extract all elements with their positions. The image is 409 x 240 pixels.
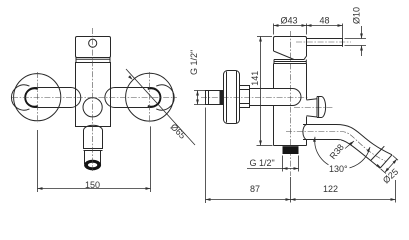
dim 87/122 ext right <box>395 180 397 203</box>
svg-text:Ø10: Ø10 <box>351 7 361 24</box>
svg-text:Ø43: Ø43 <box>281 15 298 25</box>
arrow 48 left <box>307 24 312 27</box>
arrow G1/2 top <box>196 91 199 96</box>
spout tip <box>85 151 101 164</box>
text R38 <box>327 140 348 162</box>
dim Ø43 ext right / 48 left <box>306 24 308 35</box>
centerline vertical left union <box>37 72 39 123</box>
arrow 87 right <box>286 198 291 201</box>
diverter knob cap <box>317 97 326 118</box>
dim 87/122 ext left <box>205 108 207 204</box>
escutcheon right circle <box>126 73 174 121</box>
cap neck rings <box>274 60 306 64</box>
dim Ø25 ext lines <box>381 156 398 174</box>
dim Ø25 line <box>385 159 397 172</box>
spout tube <box>84 125 103 148</box>
right union flange arc <box>156 85 174 110</box>
arrow 141 bottom <box>259 141 262 146</box>
spout upper line <box>303 125 392 155</box>
handle cap <box>274 37 307 60</box>
union nut side <box>240 86 250 108</box>
diverter knob stem <box>307 99 318 117</box>
escutcheon left circle <box>14 74 61 121</box>
arrow R38 <box>349 141 354 145</box>
left union nut thick arc <box>25 88 38 106</box>
arrow 48 right <box>338 24 343 27</box>
leader R38 <box>345 141 354 149</box>
dim 141 line <box>260 37 262 146</box>
wall nipple dark band <box>220 91 223 105</box>
spout seam <box>84 150 103 152</box>
dim 150 extension right <box>150 126 152 192</box>
arrow Ø10 top <box>360 34 363 39</box>
leader Ø65 line <box>126 69 195 145</box>
svg-text:48: 48 <box>320 15 330 25</box>
arrow outlet right <box>294 167 299 170</box>
outlet nipple black <box>283 146 299 154</box>
body bottom <box>274 145 307 147</box>
centerline knob <box>294 107 333 109</box>
dim Ø43 ext left <box>273 24 275 35</box>
arrow 122 right <box>391 198 396 201</box>
arrow Ø43 left <box>274 24 279 27</box>
handle block <box>76 37 111 58</box>
arrow Ø10 bottom <box>360 46 363 51</box>
arrow Ø25 top <box>393 159 397 164</box>
text Ø25 <box>381 167 400 186</box>
arrow G1/2 bottom <box>196 100 199 105</box>
svg-text:G 1/2": G 1/2" <box>189 50 199 75</box>
lever rod <box>307 39 343 46</box>
arrow Ø43 right <box>302 24 307 27</box>
arrow 122 left <box>291 198 296 201</box>
arrow outlet left <box>283 167 288 170</box>
angle arrow left <box>313 137 316 142</box>
centerline vertical body <box>290 31 292 176</box>
flow arrow in band <box>376 164 381 168</box>
arrow Ø25 bottom <box>385 168 389 173</box>
dim G1/2 outlet ext lines <box>283 156 299 172</box>
dim 150 line <box>38 188 151 190</box>
right arm capsule <box>105 88 161 108</box>
centerline horizontal through unions <box>12 97 177 99</box>
body side left edge <box>273 64 275 146</box>
arrow 87 left <box>206 198 211 201</box>
collar band <box>76 58 110 63</box>
svg-text:150: 150 <box>85 180 100 190</box>
centerline vertical body <box>92 28 94 171</box>
dim 48 ext right <box>342 24 344 48</box>
leader Ø65 arrow <box>128 75 133 80</box>
svg-text:G 1/2": G 1/2" <box>250 158 275 168</box>
centerline horizontal arm <box>201 97 308 99</box>
svg-text:122: 122 <box>323 184 338 194</box>
label Ø65 <box>169 122 188 141</box>
escutcheon inner lines <box>227 71 237 124</box>
text G1/2 wall <box>189 50 199 75</box>
left arm capsule <box>25 88 81 108</box>
centerline lever rod <box>296 41 351 43</box>
centerline vertical right union <box>149 72 151 123</box>
centerline spout <box>286 132 386 162</box>
aerator band face 1 <box>371 146 385 160</box>
aerator inner <box>88 163 97 168</box>
dim 141 ext bottom <box>257 145 273 147</box>
dim 87/122 ext mid <box>290 177 292 203</box>
svg-text:130°: 130° <box>329 164 348 174</box>
wall nipple thread line <box>208 91 210 105</box>
text Ø10 <box>351 7 361 24</box>
angle arrow right <box>367 147 370 152</box>
dim G1/2 outlet line <box>247 168 299 170</box>
escutcheon side <box>224 71 240 124</box>
spout lower line <box>303 140 380 169</box>
handle screw circle <box>89 39 97 47</box>
dim Ø10 lines <box>361 26 363 56</box>
dim 150 arrow left <box>38 187 43 190</box>
dim 141 ext top <box>257 36 272 38</box>
svg-text:87: 87 <box>250 184 260 194</box>
body <box>76 63 111 127</box>
aerator band end face <box>380 155 392 168</box>
dim Ø43/48 line <box>274 25 343 27</box>
arrow 141 top <box>259 37 262 42</box>
dim Ø10 ext lines <box>345 39 367 46</box>
dim 150 arrow right <box>146 187 151 190</box>
angle 130 arc <box>315 137 370 169</box>
dim 87/122 line <box>206 199 396 201</box>
right union nut thick arc <box>148 88 161 106</box>
svg-text:141: 141 <box>250 71 260 86</box>
dim G1/2 wall ext <box>194 91 205 105</box>
inlet arm capsule side <box>250 89 302 106</box>
cartridge circle <box>83 98 102 117</box>
diverter knob cap line <box>318 97 320 118</box>
text 141 <box>250 71 260 86</box>
aerator ring <box>84 160 101 171</box>
union nut facets <box>240 90 250 104</box>
left union flange arc <box>11 85 29 110</box>
wall nipple <box>206 91 223 105</box>
body side right edge <box>306 64 308 146</box>
dim 150 extension left <box>37 130 39 192</box>
text 130 <box>329 164 350 174</box>
dim G1/2 wall line <box>197 91 199 105</box>
spout round start <box>303 125 307 140</box>
